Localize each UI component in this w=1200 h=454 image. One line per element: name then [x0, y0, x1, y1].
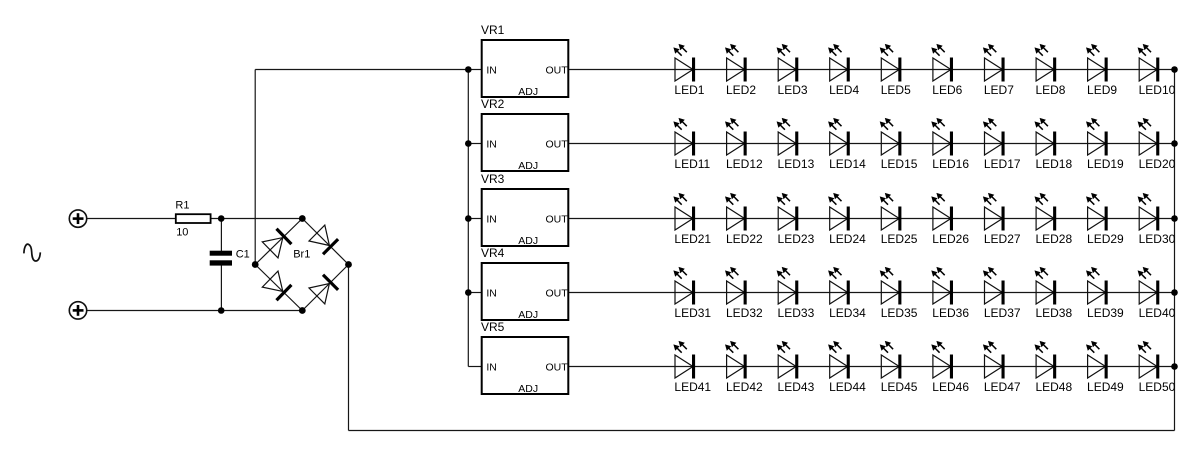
svg-text:LED9: LED9 — [1087, 83, 1117, 97]
svg-text:LED15: LED15 — [881, 157, 918, 171]
svg-text:LED3: LED3 — [778, 83, 808, 97]
svg-text:LED1: LED1 — [674, 83, 704, 97]
svg-text:LED43: LED43 — [778, 380, 815, 394]
svg-text:VR1: VR1 — [481, 23, 505, 37]
svg-text:LED22: LED22 — [726, 232, 763, 246]
svg-text:LED5: LED5 — [881, 83, 911, 97]
svg-text:LED35: LED35 — [881, 306, 918, 320]
svg-text:LED46: LED46 — [932, 380, 969, 394]
svg-text:LED45: LED45 — [881, 380, 918, 394]
svg-text:LED47: LED47 — [984, 380, 1021, 394]
svg-text:LED24: LED24 — [829, 232, 866, 246]
svg-text:LED48: LED48 — [1035, 380, 1072, 394]
svg-text:LED40: LED40 — [1139, 306, 1176, 320]
svg-text:LED38: LED38 — [1035, 306, 1072, 320]
svg-text:LED23: LED23 — [778, 232, 815, 246]
svg-text:VR2: VR2 — [481, 97, 505, 111]
svg-text:LED44: LED44 — [829, 380, 866, 394]
svg-text:LED10: LED10 — [1139, 83, 1176, 97]
svg-text:R1: R1 — [175, 199, 189, 211]
svg-text:VR4: VR4 — [481, 246, 505, 260]
svg-text:LED13: LED13 — [778, 157, 815, 171]
svg-text:LED31: LED31 — [674, 306, 711, 320]
svg-text:LED6: LED6 — [932, 83, 962, 97]
svg-text:LED18: LED18 — [1035, 157, 1072, 171]
svg-text:LED26: LED26 — [932, 232, 969, 246]
svg-text:LED30: LED30 — [1139, 232, 1176, 246]
svg-text:LED25: LED25 — [881, 232, 918, 246]
svg-text:VR5: VR5 — [481, 320, 505, 334]
svg-text:LED28: LED28 — [1035, 232, 1072, 246]
svg-text:LED29: LED29 — [1087, 232, 1124, 246]
svg-text:LED8: LED8 — [1035, 83, 1065, 97]
svg-text:VR3: VR3 — [481, 172, 505, 186]
svg-text:LED37: LED37 — [984, 306, 1021, 320]
svg-text:LED32: LED32 — [726, 306, 763, 320]
svg-text:LED11: LED11 — [674, 157, 710, 171]
svg-text:LED19: LED19 — [1087, 157, 1124, 171]
svg-text:10: 10 — [176, 227, 188, 239]
svg-text:LED36: LED36 — [932, 306, 969, 320]
svg-text:LED27: LED27 — [984, 232, 1021, 246]
svg-text:Br1: Br1 — [293, 249, 310, 261]
svg-text:LED50: LED50 — [1139, 380, 1176, 394]
svg-text:LED7: LED7 — [984, 83, 1014, 97]
svg-text:LED49: LED49 — [1087, 380, 1124, 394]
svg-text:LED34: LED34 — [829, 306, 866, 320]
svg-text:LED17: LED17 — [984, 157, 1021, 171]
svg-text:LED33: LED33 — [778, 306, 815, 320]
svg-text:LED4: LED4 — [829, 83, 859, 97]
svg-text:LED14: LED14 — [829, 157, 866, 171]
svg-text:LED12: LED12 — [726, 157, 763, 171]
svg-text:LED39: LED39 — [1087, 306, 1124, 320]
svg-text:LED2: LED2 — [726, 83, 756, 97]
svg-text:LED16: LED16 — [932, 157, 969, 171]
svg-text:C1: C1 — [236, 249, 250, 261]
svg-text:LED21: LED21 — [674, 232, 711, 246]
svg-text:LED20: LED20 — [1139, 157, 1176, 171]
svg-text:LED42: LED42 — [726, 380, 763, 394]
svg-text:LED41: LED41 — [674, 380, 711, 394]
